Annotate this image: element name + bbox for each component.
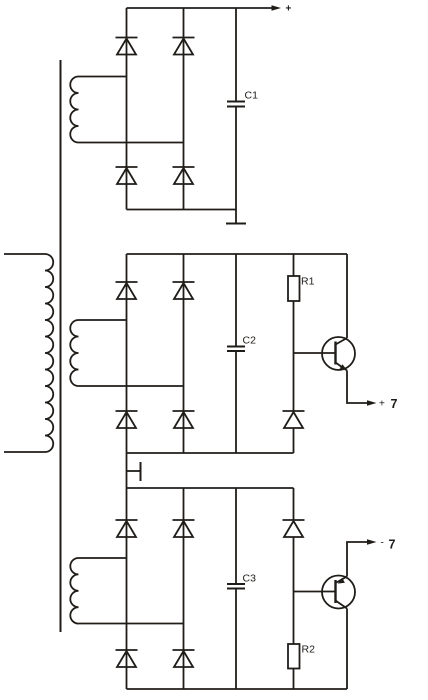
secondary winding S3 [70,558,183,624]
capacitor C2 [227,347,245,352]
wire: Q1 collector [346,254,348,338]
diode D1 [116,38,138,55]
wire: C3 branch [235,488,237,689]
arrowhead top output [272,5,282,11]
label - 7 [381,538,396,552]
wire: rail3 top [127,487,294,489]
capacitor C1 [227,102,245,107]
wire: R2 column [293,488,295,689]
wire: Q2 collector [346,609,348,690]
wire: bridge1 column 1 [126,8,128,210]
label + 7 [379,397,398,411]
wire: bridge1 column 2 [183,8,185,210]
wire: bridge3 column 1 [126,488,128,689]
svg-text:-: - [381,538,384,549]
diode D11 [116,650,138,667]
wire: bridge2 column 1 [126,254,128,453]
wire: Q2 base [294,591,335,593]
resistor R1 [288,276,300,301]
diode D13 [173,650,195,667]
secondary winding S2 [70,320,183,386]
diode D9 [283,411,305,428]
svg-text:+: + [379,399,385,410]
wire: link column between bridge2 and bridge3 [126,453,128,488]
arrowhead +7 output [367,400,377,406]
wire: bridge3 column 2 [183,488,185,689]
diode D5 [116,282,138,299]
arrowhead -7 output [367,539,377,545]
transformer core [60,60,62,632]
svg-text:R2: R2 [302,644,316,656]
resistor R2 [288,644,300,669]
wire: bridge1 bottom rail [127,209,237,211]
wire: R1 column [293,254,295,453]
common terminal stub [127,462,141,481]
capacitor C3 [227,584,245,589]
wire: +V top rail with output [127,7,273,9]
primary winding [4,254,53,452]
wire: C2 branch [235,254,237,453]
svg-text:C3: C3 [243,573,257,585]
diode D4 [173,167,195,184]
svg-text:7: 7 [391,397,398,411]
diode D8 [173,411,195,428]
svg-text:C1: C1 [245,90,259,102]
diode D14 [283,520,305,537]
wire: Q1 base [294,352,335,354]
diode D2 [116,167,138,184]
wire: bridge2 bottom rail [127,452,294,454]
wire: bridge2 column 2 [183,254,185,453]
diode D7 [173,282,195,299]
secondary winding S1 [70,77,183,143]
diode D3 [173,38,195,55]
wire: rail2 top [127,253,348,255]
diode D6 [116,411,138,428]
terminal bar (bottom of C1 branch) [226,223,246,225]
diode D12 [173,520,195,537]
wire: Q1 emitter to +7 output [347,371,368,404]
diode D10 [116,520,138,537]
wire: Q2 emitter to -7 output [347,542,368,577]
transistor Q2 [322,576,355,609]
svg-text:R1: R1 [301,276,315,288]
wire: bridge3 bottom rail [127,688,348,690]
wire: C1 branch [235,8,237,224]
svg-text:+: + [286,4,292,15]
svg-text:C2: C2 [243,335,257,347]
transistor Q1 [322,337,355,371]
svg-text:7: 7 [389,538,396,552]
